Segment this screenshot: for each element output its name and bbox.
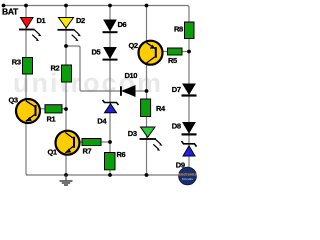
- svg-text:D8: D8: [172, 122, 181, 131]
- svg-text:D3: D3: [128, 129, 137, 138]
- svg-text:Q2: Q2: [129, 41, 138, 50]
- node top D2: [64, 4, 68, 8]
- wire Q2 column: [146, 6, 148, 176]
- wire D2 column: [65, 6, 67, 176]
- diode D5: [103, 48, 118, 61]
- svg-text:D2: D2: [76, 16, 85, 25]
- node R1 junction: [64, 107, 68, 111]
- LED D3: [140, 127, 163, 151]
- svg-text:R3: R3: [12, 57, 21, 66]
- svg-text:D10: D10: [125, 71, 138, 80]
- node D2 cathode junction: [64, 44, 68, 48]
- svg-text:D5: D5: [92, 48, 101, 57]
- diode D10: [120, 86, 135, 96]
- transistor Q3: [16, 99, 40, 123]
- wire D10 to Q2 column: [135, 90, 147, 92]
- wire Q3 base to R1: [36, 108, 45, 110]
- node D3 bottom junction: [145, 173, 149, 177]
- svg-text:Circuits: Circuits: [182, 177, 194, 181]
- node battery terminal: [2, 4, 6, 8]
- resistor R4: [141, 99, 151, 117]
- svg-text:R6: R6: [117, 150, 126, 159]
- svg-text:D1: D1: [37, 16, 46, 25]
- svg-text:BAT: BAT: [2, 7, 19, 17]
- ground: [60, 175, 73, 185]
- wire R7 to node: [101, 141, 110, 143]
- node R5 junction: [187, 50, 191, 54]
- svg-text:R7: R7: [83, 146, 92, 155]
- svg-text:D6: D6: [118, 20, 127, 29]
- svg-text:D7: D7: [172, 85, 181, 94]
- svg-text:R4: R4: [156, 104, 166, 113]
- diode D8: [182, 123, 197, 136]
- resistor R5: [168, 48, 183, 55]
- LED D2: [58, 18, 81, 42]
- resistor R1: [45, 105, 62, 113]
- zener D9: [182, 141, 197, 156]
- transistor Q2: [139, 41, 163, 65]
- wire Q1 base to R7: [75, 141, 83, 143]
- node top D1: [24, 4, 28, 8]
- svg-text:R5: R5: [168, 56, 177, 65]
- svg-text:Q1: Q1: [48, 148, 57, 157]
- wire branch D2 to D10 node: [66, 46, 121, 91]
- wire bottom bus: [26, 174, 189, 176]
- wire R1 to node: [62, 108, 66, 110]
- node R7 junction: [108, 140, 112, 144]
- svg-text:Q3: Q3: [9, 95, 18, 104]
- diode D6: [103, 20, 118, 33]
- node ground junction: [64, 173, 68, 177]
- resistor R3: [23, 58, 33, 75]
- zener D4: [103, 100, 119, 113]
- resistor R6: [105, 153, 116, 170]
- LED D1: [19, 18, 41, 42]
- wire top bus: [4, 6, 190, 23]
- svg-text:unitrocom: unitrocom: [13, 68, 163, 98]
- wire Q2 base to R5: [157, 51, 168, 53]
- svg-text:D4: D4: [97, 116, 107, 125]
- svg-text:R1: R1: [47, 114, 56, 123]
- node D10 junction: [145, 89, 149, 93]
- node R6 bottom junction: [108, 173, 112, 177]
- transistor Q1: [56, 131, 80, 155]
- svg-text:R2: R2: [51, 64, 60, 73]
- wire middle column: [109, 6, 111, 176]
- logo watermark: [178, 167, 196, 185]
- resistor R2: [62, 65, 72, 82]
- svg-text:R8: R8: [174, 25, 183, 34]
- resistor R7: [82, 139, 101, 146]
- diode D7: [182, 84, 197, 97]
- wire right column: [188, 22, 190, 175]
- wire R5 to node: [182, 51, 189, 53]
- node top D6: [108, 4, 112, 8]
- node top Q2: [145, 4, 149, 8]
- resistor R8: [185, 22, 195, 39]
- wire left column: [26, 6, 28, 176]
